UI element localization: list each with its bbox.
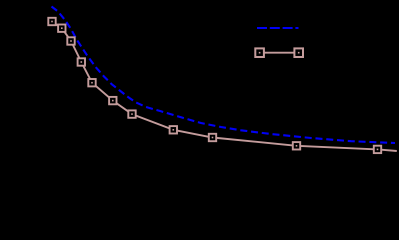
tan data polyline (measured series) (52, 22, 397, 152)
legend: right marker square (294, 48, 303, 57)
marker square 2 (58, 25, 65, 32)
marker square 3 (67, 37, 74, 44)
marker square 5 (88, 79, 95, 86)
marker square 1 (48, 18, 55, 25)
legend: blue dashed sample line (257, 27, 299, 29)
legend: tan sample line (260, 52, 299, 54)
marker square 6 (109, 97, 116, 104)
blue dashed curve (exact solution) (52, 7, 396, 144)
marker square 9 (209, 134, 216, 141)
marker square 11 (374, 146, 381, 153)
marker square 8 (170, 126, 177, 133)
marker square 10 (293, 142, 300, 149)
marker square 7 (128, 110, 135, 117)
marker square 4 (78, 58, 85, 65)
legend: left marker square (255, 48, 264, 57)
